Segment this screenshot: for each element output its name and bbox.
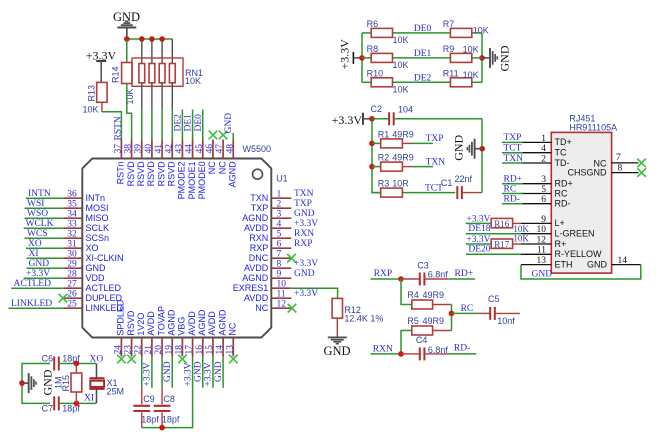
- svg-text:ETH: ETH: [555, 259, 573, 269]
- wire R9 to GND rail: [472, 57, 482, 59]
- pin 8 AVDD (right): [244, 259, 291, 273]
- svg-text:RXN: RXN: [249, 233, 268, 243]
- svg-text:RSVD: RSVD: [156, 161, 166, 187]
- pin 25 LINKLED (left): [63, 299, 123, 313]
- wire C7 to XI node: [59, 402, 96, 404]
- svg-text:DE0: DE0: [414, 24, 432, 34]
- resistor R13: [83, 82, 108, 114]
- svg-text:19: 19: [164, 345, 174, 355]
- svg-text:RC: RC: [504, 184, 517, 194]
- svg-text:C2: C2: [371, 104, 383, 114]
- svg-text:16: 16: [195, 345, 205, 355]
- svg-text:25M: 25M: [107, 387, 125, 397]
- svg-text:49R9: 49R9: [423, 316, 445, 326]
- svg-text:10K: 10K: [463, 70, 479, 80]
- no-connect X on pin 12: [288, 304, 297, 313]
- wire net RC: [452, 312, 478, 314]
- wire R3 to TCT / C1: [402, 192, 455, 194]
- pin 6 RD- (RJ451): [521, 195, 571, 208]
- svg-text:NC: NC: [207, 161, 217, 174]
- power +3.3V (resistor grid): [338, 39, 362, 70]
- svg-text:AGND: AGND: [217, 309, 227, 336]
- pin 7 DNC (right): [249, 249, 292, 263]
- wire R4 to RC rail: [433, 304, 452, 306]
- wire net DE18 to pin 10: [466, 233, 521, 235]
- capacitor C4 6.8nf: [401, 335, 448, 360]
- wire R12 to ground: [336, 318, 338, 336]
- svg-text:10K: 10K: [83, 104, 99, 114]
- pin 17 AVDD (bottom): [185, 311, 197, 357]
- svg-text:INTn: INTn: [86, 193, 106, 203]
- pin 42 RSVD (top): [164, 140, 176, 187]
- wire net DE1: [393, 57, 451, 59]
- pin 38 RSVD (top): [124, 140, 136, 187]
- pin 14 GND (RJ451): [587, 256, 641, 269]
- svg-text:C4: C4: [416, 335, 428, 345]
- resistor R11: [443, 68, 472, 87]
- svg-text:TXP: TXP: [251, 203, 269, 213]
- svg-text:TXP: TXP: [426, 134, 444, 144]
- svg-text:49R9: 49R9: [423, 290, 445, 300]
- svg-text:10K: 10K: [393, 35, 409, 45]
- svg-text:GND: GND: [86, 263, 107, 273]
- svg-text:5: 5: [277, 229, 282, 239]
- svg-text:DE2: DE2: [414, 73, 432, 83]
- wire net RXN: [371, 353, 402, 355]
- svg-text:32: 32: [67, 229, 77, 239]
- no-connect X on pin 18: [178, 355, 187, 364]
- svg-text:43: 43: [174, 144, 184, 154]
- wire C4 to RD-: [424, 353, 448, 355]
- svg-text:RSVD: RSVD: [126, 310, 136, 336]
- wire +3.3V rail (R1-R3): [372, 119, 381, 193]
- wire R17 to pin 12: [513, 243, 521, 245]
- wire net WSI to pin 35: [25, 207, 64, 209]
- node junction GND: [479, 146, 485, 152]
- svg-text:AVDD: AVDD: [244, 223, 269, 233]
- svg-text:DE20: DE20: [468, 245, 490, 255]
- wire net RXP: [371, 278, 402, 280]
- node junction GND rail: [479, 55, 485, 61]
- svg-text:R6: R6: [367, 19, 379, 29]
- capacitor C7 18pf: [42, 396, 81, 413]
- pin 12 R+ (RJ451): [521, 235, 566, 248]
- svg-text:12: 12: [537, 235, 547, 245]
- svg-text:CHSGND: CHSGND: [567, 167, 607, 177]
- svg-text:+3.3V: +3.3V: [294, 219, 318, 229]
- svg-text:RD-: RD-: [454, 344, 470, 354]
- svg-text:MISO: MISO: [86, 213, 109, 223]
- pin 30 XI-CLKIN (left): [63, 249, 123, 263]
- pin 34 MISO (left): [63, 209, 108, 223]
- svg-text:RC: RC: [461, 304, 474, 314]
- svg-text:R8: R8: [367, 44, 379, 54]
- wire net TXP to RJ451: [502, 141, 523, 143]
- wire R7 to GND rail: [472, 32, 482, 34]
- svg-text:RSVD: RSVD: [136, 161, 146, 187]
- pin 20 TOVAP (bottom): [154, 306, 166, 357]
- svg-text:R1: R1: [378, 130, 390, 140]
- ground GND (C1/C2 area): [451, 134, 482, 160]
- no-connect X on pin 46: [209, 131, 218, 140]
- svg-text:AGND: AGND: [242, 273, 269, 283]
- wire net +3.3V to pin 28: [24, 277, 64, 279]
- wire net RD- to RJ451: [502, 203, 523, 205]
- svg-text:36: 36: [67, 189, 77, 199]
- svg-text:48: 48: [225, 144, 235, 154]
- svg-text:RSVD: RSVD: [166, 161, 176, 187]
- pin 13 ETH (RJ451): [521, 256, 573, 269]
- node junction XI: [74, 401, 80, 407]
- pin 8 CHSGND (RJ451): [567, 163, 638, 177]
- ground GND (top): [113, 10, 140, 39]
- svg-text:40: 40: [144, 144, 154, 154]
- svg-text:AVDD: AVDD: [146, 311, 156, 336]
- svg-text:WCLK: WCLK: [26, 219, 54, 229]
- svg-text:10nf: 10nf: [497, 316, 515, 326]
- svg-text:33: 33: [67, 219, 77, 229]
- svg-text:7: 7: [616, 153, 621, 163]
- svg-text:38: 38: [124, 144, 134, 154]
- op-amp U1 W5500 chip body: [82, 159, 271, 338]
- ground GND (R12): [323, 337, 350, 357]
- wire net DE2 to pin 43: [181, 110, 183, 140]
- resistor R14: [111, 63, 135, 105]
- no-connect X on pin 13: [229, 355, 238, 364]
- wire C3 to RD+: [424, 278, 448, 280]
- svg-text:SPDLED: SPDLED: [116, 299, 126, 336]
- pin 40 RSVD (top): [144, 140, 156, 187]
- pin 29 GND (left): [63, 259, 106, 273]
- wire +3.3V to R16: [466, 222, 491, 224]
- svg-text:C7: C7: [42, 404, 54, 414]
- svg-text:AGND: AGND: [242, 213, 269, 223]
- resistor R10: [367, 68, 409, 94]
- no-connect X on pin 8 (RJ451): [637, 168, 646, 177]
- wire net DE2: [393, 81, 451, 83]
- svg-text:+3.3V: +3.3V: [332, 113, 363, 127]
- wire net WSO to pin 34: [25, 217, 64, 219]
- pin 1 TD+ (RJ451): [521, 134, 572, 147]
- svg-text:VBG: VBG: [177, 317, 187, 336]
- wire R14 to pin 38: [127, 84, 132, 140]
- svg-text:TXP: TXP: [504, 133, 522, 143]
- svg-text:1V2O: 1V2O: [136, 313, 146, 336]
- svg-text:4: 4: [541, 144, 546, 154]
- svg-text:PMODE1: PMODE1: [187, 161, 197, 199]
- svg-text:W5500: W5500: [243, 144, 272, 154]
- svg-text:17: 17: [185, 345, 195, 355]
- svg-text:GND: GND: [214, 361, 224, 382]
- svg-text:10K: 10K: [393, 60, 409, 70]
- pin 2 TD- (RJ451): [521, 154, 570, 167]
- svg-text:R+: R+: [555, 239, 567, 249]
- wire R16 to pin 9: [513, 222, 521, 224]
- svg-text:10: 10: [277, 279, 287, 289]
- svg-text:SCSn: SCSn: [86, 233, 110, 243]
- capacitor C3 6.8nf: [401, 261, 448, 286]
- pin 27 ACTLED (left): [63, 279, 121, 293]
- wire RN1 outputs to pins 39-42: [141, 83, 143, 109]
- svg-text:8: 8: [277, 259, 282, 269]
- svg-text:9: 9: [277, 269, 282, 279]
- svg-text:6.8nf: 6.8nf: [428, 269, 449, 279]
- svg-text:35: 35: [67, 199, 77, 209]
- wire net GND to pin 29: [27, 267, 64, 269]
- svg-text:22nf: 22nf: [455, 174, 473, 184]
- svg-text:NC: NC: [227, 322, 237, 335]
- resistor R5 49R9: [407, 316, 444, 335]
- pin 2 TXP (right): [251, 199, 292, 213]
- pin 35 MOSI (left): [63, 199, 108, 213]
- svg-text:42: 42: [164, 144, 174, 154]
- connector RJ451 HR911105A body: [551, 114, 617, 273]
- pin 5 RXN (right): [249, 229, 291, 243]
- wire rail to R2: [372, 166, 381, 168]
- svg-text:EXRES1: EXRES1: [233, 283, 269, 293]
- svg-text:TC: TC: [555, 148, 567, 158]
- wire +3.3V rail (left of grid): [361, 33, 363, 82]
- svg-text:10K: 10K: [513, 233, 529, 243]
- svg-text:34: 34: [67, 209, 77, 219]
- svg-text:RD-: RD-: [504, 195, 520, 205]
- svg-text:U1: U1: [276, 173, 288, 183]
- svg-text:INTN: INTN: [28, 189, 51, 199]
- wire net DE1 to pin 44: [192, 110, 194, 140]
- wire +3.3V to R17: [466, 243, 491, 245]
- svg-text:10: 10: [537, 225, 547, 235]
- svg-text:13: 13: [225, 345, 235, 355]
- svg-text:TOVAP: TOVAP: [156, 306, 166, 336]
- svg-text:+3.3V: +3.3V: [143, 362, 153, 386]
- pin 10 L-GREEN (RJ451): [521, 225, 595, 238]
- svg-text:TCT: TCT: [504, 144, 522, 154]
- resistor R15 1M: [53, 364, 82, 404]
- wire R1 to TXP: [402, 142, 412, 144]
- svg-text:DNC: DNC: [249, 253, 269, 263]
- svg-text:AGND: AGND: [166, 309, 176, 336]
- svg-text:3: 3: [541, 175, 546, 185]
- wire C1 to GND rail: [462, 192, 482, 194]
- svg-text:44: 44: [185, 144, 195, 154]
- svg-text:18: 18: [174, 345, 184, 355]
- wire R13 to pin 37: [101, 102, 103, 112]
- svg-text:26: 26: [67, 289, 77, 299]
- wire EXRES1 (pin 10) to R12: [291, 288, 337, 298]
- svg-text:14: 14: [618, 256, 628, 266]
- svg-text:RD+: RD+: [455, 269, 474, 279]
- wire GND to pin 48: [232, 133, 234, 140]
- svg-text:+3.3V: +3.3V: [294, 259, 318, 269]
- wire C2 to GND rail: [394, 118, 482, 120]
- node junction C8/GND rail: [159, 425, 165, 431]
- no-connect X on pin 7: [287, 254, 296, 263]
- svg-text:GND: GND: [224, 113, 234, 134]
- wire C6 to XO node: [59, 363, 96, 365]
- svg-text:+3.3V: +3.3V: [183, 362, 193, 386]
- svg-text:29: 29: [67, 259, 77, 269]
- wire rail to R8: [362, 57, 371, 59]
- wire net INTN to pin 36: [26, 197, 64, 199]
- wire GND rail under chip: [142, 357, 193, 428]
- wire net TCT to RJ451: [502, 152, 523, 154]
- svg-text:RSTN: RSTN: [114, 116, 124, 140]
- svg-text:6: 6: [277, 239, 282, 249]
- svg-text:10K: 10K: [463, 45, 479, 55]
- node junction RXN: [398, 351, 404, 357]
- svg-text:DE2: DE2: [173, 114, 183, 132]
- svg-text:XI-CLKIN: XI-CLKIN: [86, 253, 124, 263]
- svg-text:R5: R5: [407, 316, 419, 326]
- ground GND (crystal): [22, 369, 54, 395]
- wire R11 to GND rail: [472, 81, 482, 83]
- svg-text:1: 1: [277, 189, 282, 199]
- svg-text:7: 7: [277, 249, 282, 259]
- svg-text:3: 3: [277, 209, 282, 219]
- svg-text:C1: C1: [441, 178, 453, 188]
- pin 12 NC (right): [255, 299, 291, 313]
- wire pin 15 stub down: [212, 357, 214, 388]
- svg-text:C8: C8: [163, 394, 175, 404]
- svg-text:LINKLED: LINKLED: [11, 299, 52, 309]
- svg-text:2: 2: [541, 154, 546, 164]
- svg-text:13: 13: [537, 256, 547, 266]
- wire net WCS to pin 32: [25, 237, 64, 239]
- capacitor C6 18pf: [42, 354, 81, 371]
- svg-text:L+: L+: [555, 218, 565, 228]
- wire GND rail (right, C1/C2): [481, 119, 483, 193]
- wire C9 to GND rail: [141, 412, 143, 427]
- ground GND (resistor grid): [482, 45, 512, 71]
- svg-text:XO: XO: [28, 239, 42, 249]
- pin 5 RC (RJ451): [521, 185, 568, 198]
- svg-text:GND: GND: [451, 134, 465, 160]
- node junction XO: [74, 361, 80, 367]
- svg-text:GND: GND: [163, 361, 173, 382]
- wire pin 16 stub down: [202, 357, 204, 388]
- pin 15 AVDD (bottom): [205, 311, 217, 357]
- svg-text:9: 9: [541, 215, 546, 225]
- svg-text:R3: R3: [378, 179, 390, 189]
- svg-text:PMODE2: PMODE2: [177, 161, 187, 199]
- svg-text:GND: GND: [532, 270, 553, 280]
- svg-text:TXN: TXN: [250, 193, 268, 203]
- node junction RXP: [398, 276, 404, 282]
- svg-text:WSO: WSO: [27, 209, 48, 219]
- svg-text:TD+: TD+: [555, 137, 572, 147]
- pin 1 TXN (right): [250, 189, 291, 203]
- svg-text:WCS: WCS: [27, 229, 48, 239]
- svg-text:TXP: TXP: [294, 199, 312, 209]
- capacitor C5 10nf: [477, 294, 515, 326]
- svg-text:TD-: TD-: [555, 158, 570, 168]
- svg-text:10K: 10K: [473, 26, 489, 36]
- pin 9 AGND (right): [242, 269, 291, 283]
- svg-text:1M: 1M: [53, 376, 63, 389]
- svg-text:14: 14: [215, 345, 225, 355]
- svg-text:R17: R17: [494, 240, 510, 250]
- wire net XO to pin 31: [26, 247, 63, 249]
- svg-text:23: 23: [124, 345, 134, 355]
- svg-text:5: 5: [541, 185, 546, 195]
- svg-text:RC: RC: [555, 188, 568, 198]
- svg-text:HR911105A: HR911105A: [569, 122, 617, 132]
- wire rail to R6: [362, 32, 371, 34]
- pin 46 NC (top): [205, 140, 217, 175]
- pin 31 XO (left): [63, 239, 98, 253]
- wire net DE0: [393, 32, 451, 34]
- node junction +3.3V rail: [359, 55, 365, 61]
- pin 45 PMODE0 (top): [195, 140, 207, 200]
- pin 14 AGND (bottom): [215, 309, 227, 356]
- svg-text:GND: GND: [294, 269, 315, 279]
- svg-text:RD+: RD+: [555, 179, 573, 189]
- svg-text:DE0: DE0: [194, 114, 204, 132]
- node junction dots on GND bus: [124, 36, 130, 42]
- pin 23 RSVD (bottom): [124, 310, 136, 356]
- pin 13 NC (bottom): [225, 322, 237, 356]
- svg-text:AVDD: AVDD: [244, 263, 269, 273]
- wire net DE0 to pin 45: [202, 110, 204, 140]
- wire rail to R3: [372, 192, 381, 194]
- svg-text:11: 11: [277, 289, 286, 299]
- resistor R4 49R9: [407, 290, 444, 309]
- svg-text:46: 46: [205, 144, 215, 154]
- resistor R12 12.4K 1%: [332, 298, 383, 323]
- svg-text:TXN: TXN: [426, 157, 446, 167]
- wire rail to R10: [362, 81, 371, 83]
- svg-text:10K: 10K: [185, 76, 201, 86]
- pin 28 VDD (left): [63, 269, 105, 283]
- wire R2 to TXN: [402, 166, 412, 168]
- capacitor C1 22nf: [441, 174, 473, 199]
- svg-text:VDD: VDD: [86, 273, 106, 283]
- svg-text:NC: NC: [255, 303, 268, 313]
- svg-text:15: 15: [205, 345, 215, 355]
- pin 11 R-YELLOW (RJ451): [521, 246, 602, 259]
- svg-text:28: 28: [67, 269, 77, 279]
- svg-text:12: 12: [277, 299, 287, 309]
- pin 33 SCLK (left): [63, 219, 109, 233]
- wire net DE20 to pin 11: [466, 253, 521, 255]
- svg-text:R10: R10: [367, 68, 384, 78]
- svg-text:30: 30: [67, 249, 77, 259]
- svg-text:+3.3V: +3.3V: [338, 39, 352, 70]
- svg-text:R16: R16: [494, 219, 510, 229]
- svg-text:GND: GND: [323, 344, 350, 358]
- svg-text:GND: GND: [40, 369, 54, 395]
- pin 21 AVDD (bottom): [144, 311, 156, 357]
- svg-text:+3.3V: +3.3V: [204, 362, 214, 386]
- svg-text:C6: C6: [42, 354, 54, 364]
- pin 10 EXRES1 (right): [233, 279, 292, 293]
- resistor R1 49R9: [378, 130, 414, 148]
- pin 4 AVDD (right): [244, 219, 291, 233]
- wire GND rail (right of grid): [481, 33, 483, 82]
- svg-text:21: 21: [144, 345, 154, 355]
- svg-text:+3.3V: +3.3V: [26, 269, 50, 279]
- wire pin 20 to C8: [161, 357, 163, 388]
- svg-text:11: 11: [537, 246, 546, 256]
- svg-text:GND: GND: [29, 259, 50, 269]
- power +3.3V (R13): [86, 49, 117, 83]
- svg-text:20: 20: [154, 345, 164, 355]
- svg-text:GND: GND: [587, 259, 608, 269]
- svg-text:49R9: 49R9: [392, 130, 414, 140]
- svg-text:37: 37: [113, 144, 123, 154]
- svg-text:RSVD: RSVD: [146, 161, 156, 187]
- svg-text:1: 1: [541, 134, 546, 144]
